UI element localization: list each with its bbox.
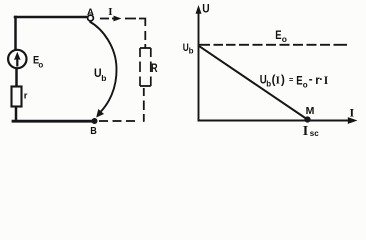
svg-text:b: b	[266, 80, 271, 89]
dashed bottom wire from node B	[99, 120, 135, 122]
load line Ub(I)	[199, 46, 308, 120]
wire source to resistor r	[15, 69, 18, 88]
svg-text:I: I	[324, 75, 329, 87]
wire top horizontal from source to node A	[15, 16, 88, 19]
svg-text:sc: sc	[310, 129, 319, 138]
svg-text:I: I	[303, 124, 308, 139]
svg-text:-: -	[309, 74, 313, 86]
formula Ub(I)=E0-rI	[260, 74, 329, 90]
svg-text:·: ·	[319, 74, 323, 86]
svg-text:o: o	[38, 60, 43, 69]
graph I axis	[198, 120, 350, 122]
source E0 arrow	[14, 52, 21, 67]
wire resistor r to bottom corner	[15, 106, 18, 120]
node A	[88, 15, 94, 21]
svg-text:U: U	[202, 3, 209, 15]
svg-text:M: M	[306, 105, 315, 117]
svg-text:I: I	[108, 6, 112, 18]
graph U axis	[198, 11, 200, 121]
svg-text:I: I	[276, 75, 280, 87]
resistor r	[12, 87, 22, 107]
dashed E0 level line	[199, 44, 347, 46]
svg-text:o: o	[282, 34, 287, 44]
dashed branch right vertical top corner	[139, 19, 145, 49]
wire bottom horizontal to node B	[13, 120, 92, 123]
node B	[92, 118, 98, 124]
svg-text:): )	[281, 75, 285, 87]
Ub arc arrow	[90, 22, 117, 114]
svg-text:B: B	[90, 125, 97, 137]
resistor R dashed box	[140, 48, 151, 86]
svg-text:b: b	[189, 47, 194, 56]
current arrow I dashed	[100, 18, 136, 20]
svg-text:=: =	[289, 76, 293, 85]
svg-text:A: A	[87, 7, 94, 18]
svg-text:r: r	[24, 91, 28, 102]
svg-text:I: I	[350, 106, 355, 120]
svg-text:o: o	[303, 81, 308, 90]
wire left vertical down to source	[14, 17, 17, 50]
source E0 circle	[8, 50, 26, 68]
dashed branch right vertical bottom	[143, 88, 146, 121]
svg-text:R: R	[151, 61, 158, 75]
point M dot	[304, 116, 310, 122]
svg-text:b: b	[101, 73, 106, 83]
